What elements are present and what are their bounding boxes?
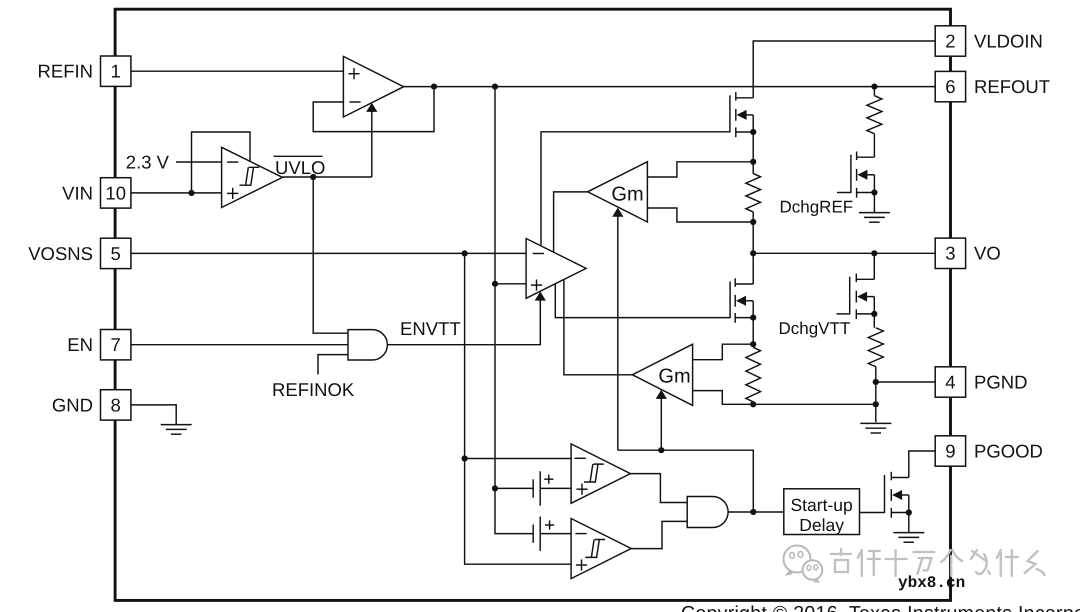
op-amp U1 REFIN buffer bbox=[343, 56, 403, 117]
ground DchgREF bbox=[859, 213, 890, 223]
ground Q3 PGOOD bbox=[893, 533, 924, 543]
wire A2 output to Start-up Delay bbox=[728, 511, 784, 513]
node R2 bottom Gm2 tap bbox=[750, 401, 756, 407]
enable arrow into Gm1 bbox=[612, 208, 623, 451]
transistor Q1 source FET bbox=[730, 92, 753, 137]
svg-text:7: 7 bbox=[111, 334, 121, 355]
wire DchgREF source to ground bbox=[873, 193, 875, 213]
comparator U3 main error amp bbox=[526, 239, 586, 299]
wire REFIN to op-amp U1 + input bbox=[131, 70, 343, 72]
node U3 + input junction bbox=[492, 281, 498, 287]
DchgVTT gate stub bbox=[837, 313, 850, 315]
wire PGOOD pin 9 to Q3 drain bbox=[909, 451, 936, 478]
watermark logo chat bubbles bbox=[784, 546, 823, 584]
wire VOSNS to comparator U3 - input bbox=[131, 252, 526, 254]
wire 2.3V to U2 - input bbox=[176, 161, 222, 163]
wire Q2 source to R2 to node bbox=[752, 318, 754, 348]
node REFOUT-R3 junction bbox=[871, 84, 877, 90]
wire Gm2 top input tap bbox=[693, 344, 754, 360]
node R2 top Gm2 tap bbox=[750, 341, 756, 347]
wire Gm2 bottom input tap bbox=[693, 391, 754, 405]
ground DchgVTT bbox=[860, 423, 891, 433]
svg-text:3: 3 bbox=[945, 243, 955, 264]
pin 5 VOSNS bbox=[28, 238, 131, 268]
pin 7 EN bbox=[67, 330, 131, 360]
wire U3 output to Q1 gate bbox=[541, 132, 730, 246]
label REFINOK bbox=[272, 379, 355, 400]
resistor R2 VTT sense bbox=[746, 347, 761, 402]
node Gm2 enable tap bbox=[658, 447, 664, 453]
wire VO down to Q2 drain bbox=[752, 253, 754, 284]
wire ENVTT from A1 output to U3 enable bbox=[388, 301, 541, 345]
node Q1 source junction bbox=[750, 129, 756, 135]
wire PGND pin 4 bbox=[876, 381, 936, 383]
resistor R4 DchgVTT bbox=[868, 328, 883, 367]
svg-text:Start-up: Start-up bbox=[790, 495, 852, 515]
node DchgVTT source junction bbox=[871, 311, 877, 317]
ground at GND pin bbox=[161, 425, 192, 435]
DchgREF gate stub bbox=[837, 192, 851, 194]
node VIN junction bbox=[188, 190, 194, 196]
svg-text:4: 4 bbox=[945, 371, 955, 392]
wire U2 hysteresis feedback loop bbox=[192, 132, 251, 193]
wire Gm1 bottom input tap bbox=[647, 208, 753, 222]
svg-text:PGOOD: PGOOD bbox=[974, 440, 1043, 461]
svg-text:VO: VO bbox=[974, 243, 1001, 264]
wire VLDOIN pin 2 to Q1 drain bbox=[753, 41, 935, 98]
node C1 lead junction bbox=[492, 485, 498, 491]
pin 1 REFIN bbox=[38, 56, 131, 86]
svg-text:Copyright © 2016, Texas Instru: Copyright © 2016, Texas Instruments Inco… bbox=[681, 603, 1080, 612]
svg-text:2: 2 bbox=[945, 30, 955, 51]
wire Q3 source to ground bbox=[908, 513, 910, 533]
wire U5 output to AND gate A2 bbox=[631, 521, 687, 548]
pin 8 GND bbox=[52, 390, 131, 420]
svg-text:Gm: Gm bbox=[658, 365, 690, 387]
wire U4 output to AND gate A2 bbox=[630, 474, 687, 503]
svg-text:PGND: PGND bbox=[974, 371, 1027, 392]
pin 9 PGOOD bbox=[935, 436, 1043, 466]
label ENVTT bbox=[400, 318, 461, 339]
label UVLO with overline bbox=[274, 156, 326, 178]
svg-text:Delay: Delay bbox=[799, 515, 844, 535]
label DchgREF bbox=[780, 198, 854, 217]
node U4 - input junction bbox=[462, 455, 468, 461]
transistor Q2 sink FET bbox=[730, 278, 753, 323]
node A2 output junction bbox=[750, 509, 756, 515]
IC boundary box bbox=[115, 9, 950, 600]
wire cap C1 to U4 + input bbox=[540, 487, 571, 489]
resistor R1 REF sense bbox=[746, 174, 761, 212]
wire VO net pin 3 bbox=[753, 252, 935, 254]
svg-text:2.3 V: 2.3 V bbox=[126, 152, 170, 173]
wire U1 feedback loop bbox=[313, 87, 434, 132]
svg-text:Gm: Gm bbox=[611, 183, 643, 205]
svg-text:GND: GND bbox=[52, 394, 93, 415]
wire Start-up Delay to Q3 gate bbox=[860, 512, 885, 514]
wire VOSNS sense down to U4/U5 inputs bbox=[465, 253, 571, 564]
resistor R3 DchgREF bbox=[867, 96, 882, 134]
svg-text:REFINOK: REFINOK bbox=[272, 379, 355, 400]
Gm amplifier Gm2 bbox=[632, 344, 692, 405]
node R1 top Gm1 tap bbox=[750, 159, 756, 165]
svg-text:DchgREF: DchgREF bbox=[780, 198, 854, 217]
enable arrow into U1 bbox=[366, 103, 377, 177]
pin 4 PGND bbox=[935, 367, 1027, 397]
svg-text:UVLO: UVLO bbox=[275, 157, 325, 178]
wire Q1 source to R1 to VO node bbox=[752, 132, 754, 174]
svg-text:10: 10 bbox=[105, 182, 126, 203]
wire REFINOK stub to AND gate A1 bbox=[318, 355, 348, 375]
wire VO to DchgVTT drain bbox=[873, 253, 875, 279]
wire U3 output to Gm2 output node bbox=[564, 280, 633, 375]
Gm amplifier Gm1 bbox=[588, 162, 648, 222]
wire R3 to DchgREF drain bbox=[873, 134, 875, 158]
node R2-ground junction bbox=[873, 401, 879, 407]
wire node REFOUT down to U3 + input and caps bbox=[495, 87, 533, 534]
svg-text:VLDOIN: VLDOIN bbox=[974, 30, 1043, 51]
AND gate A2 PGOOD logic bbox=[687, 497, 728, 528]
pin 2 VLDOIN bbox=[935, 26, 1043, 56]
transistor Q3 PGOOD FET bbox=[885, 472, 909, 518]
svg-text:6: 6 bbox=[945, 76, 955, 97]
node VO-DchgVTT junction bbox=[871, 250, 877, 256]
wire C1 left lead bbox=[495, 487, 533, 489]
svg-text:VOSNS: VOSNS bbox=[28, 243, 93, 264]
node UVLO junction bbox=[310, 174, 316, 180]
ENVTT enable arrow into U3 bbox=[535, 291, 546, 300]
wire U3 output to Gm1 output node bbox=[554, 192, 588, 252]
transistor DchgREF FET bbox=[851, 152, 875, 198]
node VO-R1 junction bbox=[750, 250, 756, 256]
comparator U2 UVLO with hysteresis bbox=[222, 147, 283, 207]
node Q2 source junction bbox=[750, 315, 756, 321]
wire R4 to PGND node to ground bbox=[875, 367, 877, 423]
wire R2 bottom to PGND ground node bbox=[753, 403, 876, 405]
wire UVLO down to AND gate A1 input bbox=[313, 177, 348, 333]
node Q3 source junction bbox=[906, 509, 912, 515]
AND gate A1 ENVTT bbox=[348, 330, 387, 360]
wire U4 - input bbox=[465, 458, 571, 460]
comparator U5 PGOOD low with hysteresis bbox=[571, 519, 631, 579]
wire REFOUT net from U1 output to pin 6 bbox=[404, 86, 936, 88]
wire GND pin to ground bbox=[131, 405, 176, 425]
comparator U4 PGOOD high with hysteresis bbox=[571, 444, 630, 503]
label 2.3 V bbox=[126, 152, 170, 173]
node REFOUT-sense junction bbox=[492, 84, 498, 90]
wire cap C2 to U5 - input bbox=[540, 533, 571, 535]
wire Gm1 top input tap bbox=[647, 162, 753, 177]
node VOSNS junction bbox=[462, 250, 468, 256]
Start-up Delay block bbox=[784, 489, 860, 535]
pin 6 REFOUT bbox=[935, 71, 1050, 101]
svg-text:REFIN: REFIN bbox=[38, 61, 94, 82]
svg-text:ybx8.cn: ybx8.cn bbox=[898, 574, 965, 592]
svg-text:8: 8 bbox=[111, 394, 121, 415]
wire U3 + input tap bbox=[495, 283, 526, 285]
capacitor C1 bbox=[533, 471, 553, 505]
node PGND junction bbox=[873, 379, 879, 385]
pin 10 VIN bbox=[62, 178, 131, 208]
svg-text:REFOUT: REFOUT bbox=[974, 76, 1050, 97]
svg-text:9: 9 bbox=[945, 440, 955, 461]
svg-text:DchgVTT: DchgVTT bbox=[779, 319, 851, 338]
wire A2 output up to Gm enable rail bbox=[618, 450, 754, 512]
wire REFOUT to R3 bbox=[873, 87, 875, 96]
svg-text:EN: EN bbox=[67, 334, 93, 355]
wire U3 output to Q2 gate bbox=[555, 284, 730, 318]
svg-text:VIN: VIN bbox=[62, 182, 93, 203]
pin 3 VO bbox=[935, 238, 1001, 268]
capacitor C2 bbox=[533, 517, 554, 551]
label DchgVTT bbox=[779, 319, 851, 338]
transistor DchgVTT FET bbox=[850, 274, 875, 320]
node R1 bottom Gm1 tap bbox=[750, 219, 756, 225]
svg-text:5: 5 bbox=[111, 243, 121, 264]
wire DchgVTT source to R4 bbox=[873, 314, 875, 328]
wire EN to AND gate A1 bbox=[131, 344, 348, 346]
svg-text:ENVTT: ENVTT bbox=[400, 318, 461, 339]
svg-text:1: 1 bbox=[111, 61, 121, 82]
wire UVLO output bbox=[282, 176, 371, 178]
enable arrow into Gm2 bbox=[656, 390, 667, 451]
wire VIN to U2 + input bbox=[131, 192, 221, 194]
node U1 output junction bbox=[431, 84, 437, 90]
node DchgREF source junction bbox=[871, 189, 877, 195]
watermark text strokes bbox=[831, 549, 1045, 576]
